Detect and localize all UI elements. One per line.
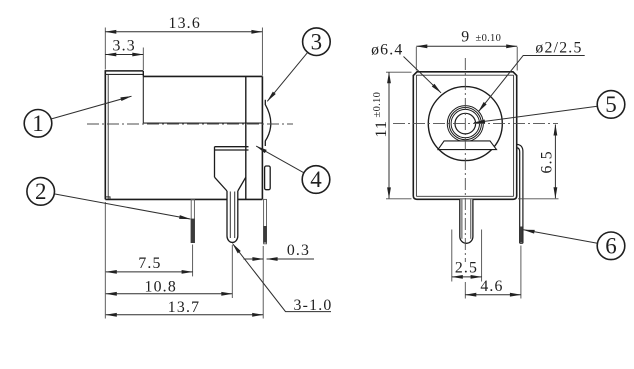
bore edge horizontal [143,122,262,124]
svg-text:7.5: 7.5 [138,255,161,272]
dim 0.3 right arrow [267,258,314,260]
balloon 5 [597,91,625,119]
leader 3-1.0 [233,244,332,312]
dim 9 extension left [415,47,417,71]
ring r14 [451,109,479,137]
dim 13.6 extension left [104,28,106,70]
center pin inner line 1 [229,192,231,239]
dim 2.5 line [452,276,482,278]
svg-text:0.3: 0.3 [287,242,310,259]
body top edge [143,75,262,77]
right pin solder tail dark [263,226,267,243]
funnel contact top inner [215,149,249,151]
ring r16 [449,108,481,140]
svg-text:4.6: 4.6 [480,278,503,295]
balloon 6 [597,232,625,260]
svg-text:2: 2 [35,179,47,204]
svg-text:13.7: 13.7 [168,299,200,316]
side pin inner curve [517,148,520,244]
step top inner line [105,73,143,75]
svg-text:1: 1 [32,111,44,136]
side tab (side view) [265,166,271,190]
centerline left view [87,123,293,125]
dim 13.6 line [105,31,262,33]
bottom left notch [105,197,110,200]
dim 2.5 extension right [481,230,483,282]
svg-text:6.5: 6.5 [539,150,556,173]
front body inner line left [415,75,417,196]
leader d6.4 [404,57,442,93]
side pin bottom cap [520,242,523,244]
balloon 6 leader [524,230,598,243]
funnel taper right [238,177,246,191]
svg-text:ø2/2.5: ø2/2.5 [535,40,582,57]
balloon 1 [24,110,52,138]
dim 9 line [416,45,517,47]
dim 13.6 extension right [261,28,263,76]
front center pin outline [460,199,473,243]
vertical centerline front view [464,58,466,262]
left pin outline [191,199,194,242]
svg-text:6: 6 [605,234,617,259]
svg-text:2.5: 2.5 [455,260,478,277]
funnel contact top outer [215,146,249,148]
dim 11 extension bottom [386,198,412,200]
leader d2/2.5 shoulder [478,56,584,112]
bore edge vertical [142,76,144,123]
dim 13.7 line [106,314,263,316]
dim 11 line [388,72,390,198]
dim 4.6 extension left stub [464,282,466,299]
step top outer line [105,70,144,72]
balloon 3 leader [267,52,307,101]
balloon 2 leader [54,194,190,219]
dim 6.5 line [554,125,556,199]
big circle d6.4 [428,87,502,161]
body outer left edge [104,70,106,199]
front center pin inner line 1 [461,199,463,239]
dim 9 extension right [516,47,518,71]
dim 13.7 extension right [262,246,264,319]
svg-text:13.6: 13.6 [168,15,200,32]
dim text 6.5 rotated [539,150,556,173]
dim 3.3 line [105,54,143,56]
side pin solder dark [520,227,523,243]
dim 4.6 line [465,294,521,296]
left pin solder tail dark [191,219,195,243]
arc bump on right edge [265,100,271,146]
balloon 2 [27,178,55,206]
side pin outer curve [517,144,523,243]
svg-text:3-1.0: 3-1.0 [294,297,333,314]
svg-text:10.8: 10.8 [144,278,176,295]
balloon 4 [302,166,330,194]
balloon 5 leader [474,106,597,123]
body back internal edge [245,76,247,199]
svg-text:3.3: 3.3 [113,38,136,55]
svg-text:±0.10: ±0.10 [372,92,383,118]
dims bottom common extension left [104,202,106,319]
svg-text:3: 3 [311,29,323,54]
pin circle r10.2 [455,113,476,134]
front center pin inner line 2 [470,199,472,239]
svg-text:ø6.4: ø6.4 [371,41,403,58]
dim 11 extension top [386,71,412,73]
body right edge [261,76,263,199]
front body inner line bottom [416,195,513,197]
balloon 3 [303,28,331,56]
front body inner line right [513,75,515,196]
svg-text:±0.10: ±0.10 [476,33,502,44]
dim 6.5 extension bottom [518,198,559,200]
dim text 11 rotated [372,92,390,138]
ring r17.8 [447,106,483,142]
dim 4.6 extension right [520,246,522,299]
dim 2.5 extension left [451,230,453,282]
dim 7.5 line [106,271,193,273]
balloon 1 leader [52,96,132,119]
dim 0.3 left arrow [244,258,264,260]
front body outer outline [413,72,516,200]
body inner left edge [107,74,109,199]
horizontal centerline front view [393,123,558,125]
funnel taper left [215,177,228,191]
right pin outline [264,199,267,243]
svg-text:4: 4 [310,167,322,192]
funnel left wall [214,147,216,178]
center pin outline [227,191,238,242]
body bottom edge [105,198,262,200]
dim 10.8 extension right [231,245,233,298]
svg-text:5: 5 [605,92,617,117]
front body inner line top [416,74,513,76]
dim 7.5 extension right [192,245,194,277]
svg-text:11: 11 [373,120,390,138]
center pin inner line 2 [234,192,236,239]
bottom bracket [438,141,497,150]
svg-text:9: 9 [461,29,470,46]
balloon 4 leader [256,146,304,173]
step right edge [142,71,144,77]
dim 3.3 extension right [142,48,144,71]
dim 10.8 line [106,293,233,295]
